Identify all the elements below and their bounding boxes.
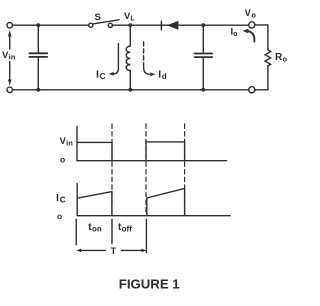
svg-text:Ro: Ro xyxy=(275,52,288,64)
svg-text:IC: IC xyxy=(56,192,66,205)
wire right bottom corner xyxy=(255,66,268,90)
wire bottom xyxy=(12,89,248,91)
tick t0 xyxy=(75,219,77,245)
Ic waveform axis xyxy=(77,184,230,216)
resistor Ro xyxy=(265,50,271,66)
node inductor bottom xyxy=(128,88,132,92)
svg-text:o: o xyxy=(57,211,62,221)
capacitor C2 (output) xyxy=(195,25,213,90)
Vin waveform axis xyxy=(77,126,227,160)
dashed grid line 3 xyxy=(184,124,186,216)
current arrow Io xyxy=(243,29,255,42)
dashed grid line 1 xyxy=(111,124,113,216)
wire top middle segment xyxy=(112,24,248,26)
terminal bottom-left xyxy=(7,87,12,92)
svg-text:FIGURE 1: FIGURE 1 xyxy=(119,276,180,291)
svg-text:Id: Id xyxy=(158,69,167,82)
dimension T arrows xyxy=(76,249,146,253)
tick t1 xyxy=(111,219,113,243)
Vin pulse 1 xyxy=(77,142,112,160)
Ic ramp 2 xyxy=(147,188,185,215)
svg-text:T: T xyxy=(111,246,117,257)
svg-text:S: S xyxy=(95,12,101,23)
inductor L xyxy=(126,25,130,90)
Ic ramp 1 xyxy=(77,192,112,216)
svg-text:Vin: Vin xyxy=(60,136,74,148)
dashed grid line 2 xyxy=(145,124,147,216)
node VL xyxy=(128,23,132,27)
terminal top-left xyxy=(7,23,12,28)
svg-text:o: o xyxy=(60,154,65,164)
tick t2 xyxy=(145,219,147,252)
svg-text:Vin: Vin xyxy=(2,50,16,62)
node input-cap top xyxy=(36,23,40,27)
svg-text:toff: toff xyxy=(118,222,132,234)
current arrow Id (dashed) xyxy=(144,42,156,76)
capacitor C1 (input) xyxy=(29,25,47,90)
node input-cap bottom xyxy=(36,88,40,92)
svg-text:ton: ton xyxy=(88,222,102,234)
wire to right corner top xyxy=(255,25,268,50)
terminal Vo xyxy=(249,22,255,28)
diode D1 xyxy=(161,21,178,30)
Vin pulse 2 xyxy=(146,142,185,161)
svg-text:Io: Io xyxy=(231,27,238,39)
svg-text:IC: IC xyxy=(96,68,106,81)
terminal bottom-right xyxy=(249,87,255,93)
node output-cap top xyxy=(201,23,205,27)
svg-text:Vo: Vo xyxy=(245,8,257,20)
switch S xyxy=(89,20,119,28)
Vin source arrow xyxy=(8,31,12,86)
node output-cap bottom xyxy=(201,88,205,92)
current arrow Ic xyxy=(109,44,119,76)
svg-text:VL: VL xyxy=(124,11,135,23)
wire top left segment xyxy=(12,24,88,26)
